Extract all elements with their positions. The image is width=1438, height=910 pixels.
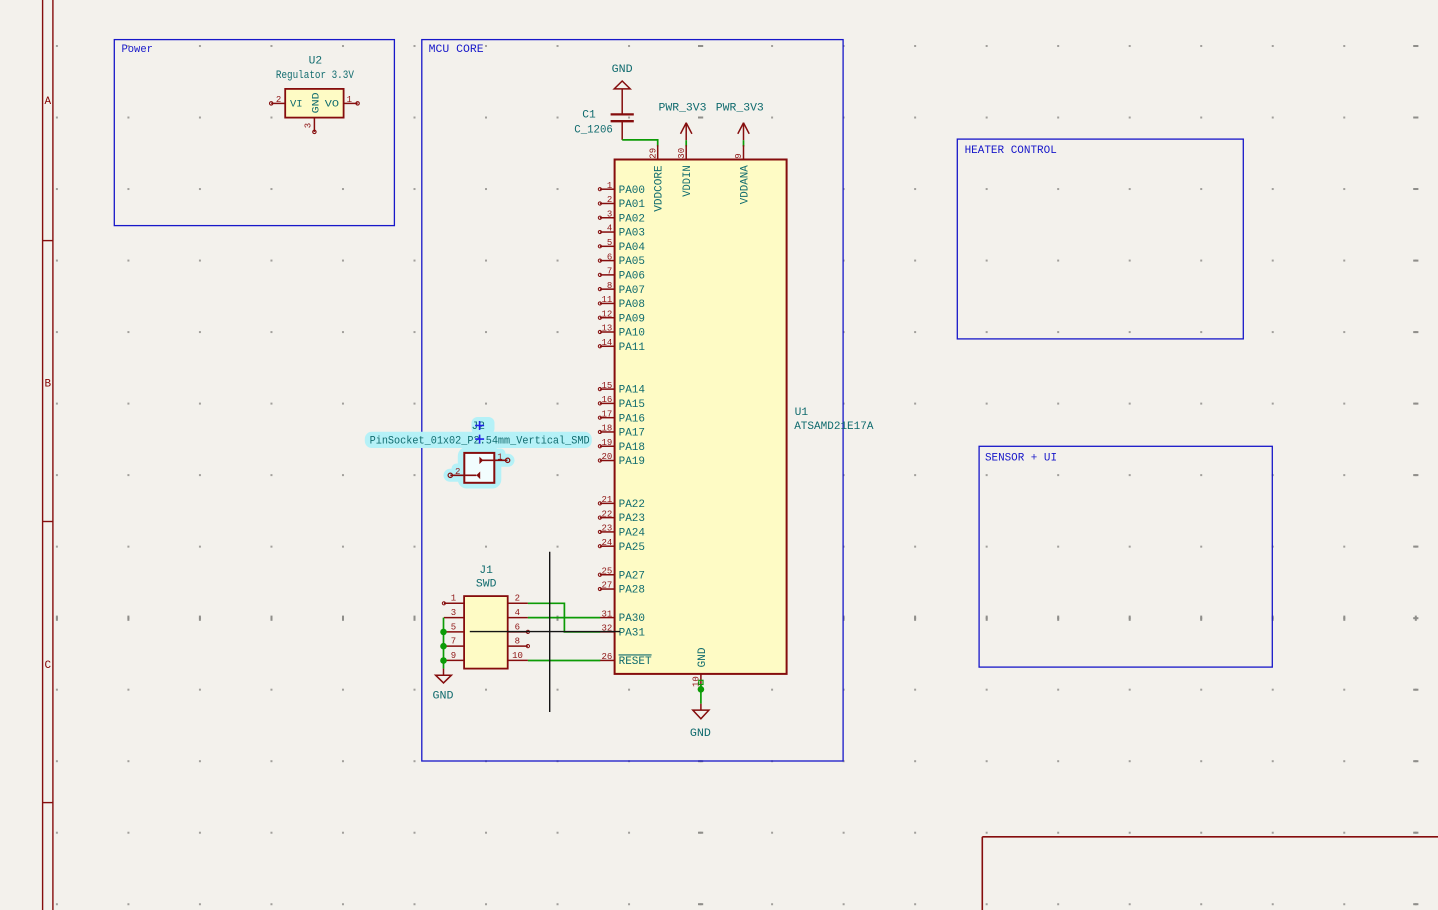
J1 pin 4	[508, 608, 528, 618]
svg-text:7: 7	[451, 637, 456, 647]
U1 pin 2 (PA01)	[598, 195, 645, 211]
power symbol GND (under J1)	[433, 669, 454, 703]
svg-text:26: 26	[601, 652, 612, 662]
svg-text:SENSOR + UI: SENSOR + UI	[985, 452, 1057, 464]
U1 pin 8 (PA07)	[598, 281, 645, 297]
svg-text:PWR_3V3: PWR_3V3	[659, 103, 707, 115]
U1 pin 19 (PA18)	[598, 438, 645, 454]
svg-text:PA09: PA09	[619, 313, 645, 325]
IC U1 body	[615, 160, 787, 674]
svg-text:13: 13	[601, 324, 612, 334]
svg-text:6: 6	[515, 622, 520, 632]
svg-text:PA27: PA27	[619, 570, 645, 582]
svg-text:PA10: PA10	[619, 328, 645, 340]
section box HEATER CONTROL	[957, 139, 1243, 339]
svg-text:15: 15	[601, 381, 612, 391]
svg-text:HEATER CONTROL: HEATER CONTROL	[965, 145, 1057, 157]
svg-text:B: B	[44, 379, 51, 391]
U1 pin 1 (PA00)	[598, 181, 645, 197]
U1 pin 24 (PA25)	[598, 538, 645, 554]
U1 pin 4 (PA03)	[598, 224, 645, 240]
svg-text:PA16: PA16	[619, 413, 645, 425]
svg-text:19: 19	[601, 438, 612, 448]
svg-text:RESET: RESET	[619, 656, 652, 668]
svg-text:29: 29	[648, 148, 658, 159]
svg-text:10: 10	[692, 676, 702, 687]
svg-text:14: 14	[601, 338, 612, 348]
svg-text:U1: U1	[795, 407, 809, 419]
wire J1 pin2 to PA31	[528, 603, 600, 632]
svg-text:31: 31	[601, 609, 612, 619]
svg-text:18: 18	[601, 424, 612, 434]
svg-text:8: 8	[607, 281, 612, 291]
svg-text:1: 1	[451, 594, 456, 604]
svg-text:7: 7	[607, 267, 612, 277]
section box Power	[114, 40, 394, 226]
svg-text:17: 17	[601, 409, 612, 419]
svg-text:MCU CORE: MCU CORE	[429, 44, 484, 56]
U1 pin 3 (PA02)	[598, 209, 645, 225]
svg-text:ATSAMD21E17A: ATSAMD21E17A	[794, 421, 874, 433]
svg-text:C: C	[44, 660, 51, 672]
svg-text:VDDIN: VDDIN	[682, 165, 694, 197]
U1 pin 13 (PA10)	[598, 324, 645, 340]
capacitor C1	[574, 109, 634, 140]
svg-text:PA04: PA04	[619, 242, 646, 254]
svg-text:2: 2	[455, 467, 460, 477]
svg-text:C_1206: C_1206	[574, 124, 613, 136]
J1 pin 9	[444, 651, 464, 661]
U1 pin 7 (PA06)	[598, 267, 645, 283]
svg-text:1: 1	[607, 181, 612, 191]
J1 pin 5	[444, 622, 464, 632]
U1 pin 16 (PA15)	[598, 395, 645, 411]
svg-text:Power: Power	[122, 44, 153, 56]
J1 pin 8	[508, 637, 530, 648]
U1 pin 11 (PA08)	[598, 295, 645, 311]
power symbol PWR_3V3 #2	[716, 103, 764, 141]
U1 pin 29 (VDDCORE)	[648, 145, 665, 212]
U1 pin 14 (PA11)	[598, 338, 645, 354]
svg-text:23: 23	[601, 524, 612, 534]
svg-text:PA01: PA01	[619, 199, 646, 211]
U1 pin 18 (PA17)	[598, 424, 645, 440]
U1 pin 32 (PA31)	[600, 624, 645, 640]
svg-text:PA28: PA28	[619, 585, 645, 597]
svg-text:SWD: SWD	[476, 579, 497, 591]
svg-text:27: 27	[601, 581, 612, 591]
svg-text:PA08: PA08	[619, 299, 645, 311]
wire C1 to VDDCORE	[622, 140, 658, 147]
svg-text:J2: J2	[472, 421, 486, 433]
svg-text:Regulator 3.3V: Regulator 3.3V	[276, 70, 354, 82]
svg-text:6: 6	[607, 252, 612, 262]
U1 pin 22 (PA23)	[598, 509, 645, 525]
wire U1 GND pin down	[700, 685, 702, 704]
svg-text:VDDANA: VDDANA	[740, 165, 752, 204]
section box MCU CORE	[422, 40, 843, 761]
svg-text:11: 11	[601, 295, 612, 305]
svg-text:GND: GND	[690, 728, 711, 740]
power symbol PWR_3V3 #1	[659, 103, 707, 141]
svg-text:PA19: PA19	[619, 456, 645, 468]
svg-text:PA07: PA07	[619, 285, 645, 297]
svg-text:20: 20	[601, 452, 612, 462]
regulator U2	[270, 55, 360, 133]
svg-text:GND: GND	[310, 92, 322, 113]
wire J1 pin10 to RESET	[528, 660, 600, 662]
svg-text:PA00: PA00	[619, 185, 645, 197]
power symbol GND (top)	[612, 64, 633, 114]
svg-text:30: 30	[677, 148, 687, 159]
U1 pin 9 (VDDANA)	[734, 145, 751, 204]
junction	[440, 643, 447, 650]
J1 pin 6	[508, 622, 530, 633]
svg-text:1: 1	[497, 452, 502, 462]
svg-text:PA23: PA23	[619, 513, 645, 525]
U1 pin 10 (GND)	[692, 647, 709, 688]
connector J1 body	[464, 596, 508, 669]
U1 pin 25 (PA27)	[598, 566, 645, 582]
U1 pin 6 (PA05)	[598, 252, 645, 268]
U1 pin 20 (PA19)	[598, 452, 645, 468]
junction	[440, 657, 447, 664]
svg-text:PA24: PA24	[619, 528, 646, 540]
svg-text:5: 5	[607, 238, 612, 248]
svg-text:PA11: PA11	[619, 342, 646, 354]
svg-text:PA05: PA05	[619, 256, 645, 268]
title block frame	[982, 836, 1438, 838]
svg-text:GND: GND	[697, 647, 709, 667]
U1 pin 26 (RESET)	[600, 652, 652, 668]
svg-text:PA02: PA02	[619, 213, 645, 225]
J1 pin 2	[508, 594, 528, 604]
wire PWR_3V3 to pin	[743, 140, 745, 146]
svg-text:PA06: PA06	[619, 270, 645, 282]
svg-text:PA25: PA25	[619, 542, 645, 554]
svg-text:21: 21	[601, 495, 612, 505]
svg-text:10: 10	[512, 651, 523, 661]
svg-text:2: 2	[276, 95, 281, 105]
svg-text:5: 5	[451, 622, 456, 632]
U1 pin 30 (VDDIN)	[677, 145, 694, 197]
svg-text:PA14: PA14	[619, 385, 646, 397]
svg-text:3: 3	[451, 608, 456, 618]
svg-text:PA03: PA03	[619, 228, 645, 240]
svg-text:3: 3	[303, 123, 313, 128]
svg-text:3: 3	[607, 209, 612, 219]
J1 pin 1	[442, 594, 464, 605]
svg-text:24: 24	[601, 538, 612, 548]
wire J1 pins 3/5/7/9 to GND	[443, 618, 445, 669]
svg-text:1: 1	[347, 95, 352, 105]
J2 anchor crosses	[475, 421, 484, 444]
U1 pin 23 (PA24)	[598, 524, 645, 540]
svg-text:9: 9	[451, 651, 456, 661]
svg-text:PA30: PA30	[619, 613, 645, 625]
U1 pin 21 (PA22)	[598, 495, 645, 511]
svg-text:PWR_3V3: PWR_3V3	[716, 103, 764, 115]
junction at U1 GND	[698, 686, 705, 693]
U1 pin 5 (PA04)	[598, 238, 645, 254]
U1 pin 27 (PA28)	[598, 581, 645, 597]
junction	[440, 629, 447, 636]
J1 pin 7	[444, 637, 464, 647]
connector J2	[370, 421, 590, 483]
J2 selection halo	[365, 417, 592, 489]
svg-text:9: 9	[734, 153, 744, 158]
dangling wire end marker	[699, 680, 703, 684]
svg-text:16: 16	[601, 395, 612, 405]
svg-text:GND: GND	[612, 64, 633, 76]
svg-text:PA17: PA17	[619, 428, 645, 440]
svg-text:VDDCORE: VDDCORE	[654, 165, 666, 212]
J1 pin 3	[444, 608, 464, 618]
svg-text:VI: VI	[290, 99, 303, 111]
svg-text:U2: U2	[309, 55, 323, 67]
wire J1 pin4 to PA30	[528, 617, 600, 619]
svg-text:4: 4	[515, 608, 520, 618]
svg-text:A: A	[44, 96, 51, 108]
svg-text:12: 12	[601, 309, 612, 319]
svg-text:PA18: PA18	[619, 442, 645, 454]
U1 pin 12 (PA09)	[598, 309, 645, 325]
svg-text:PA15: PA15	[619, 399, 645, 411]
svg-text:PA22: PA22	[619, 499, 645, 511]
svg-text:C1: C1	[582, 109, 596, 121]
power symbol GND (under U1)	[690, 704, 711, 740]
editor crosshair	[549, 552, 551, 712]
svg-text:22: 22	[601, 509, 612, 519]
svg-text:J1: J1	[479, 565, 493, 577]
svg-text:2: 2	[515, 594, 520, 604]
wire PWR_3V3 to pin	[685, 140, 687, 146]
svg-text:2: 2	[607, 195, 612, 205]
svg-text:25: 25	[601, 566, 612, 576]
U1 pin 17 (PA16)	[598, 409, 645, 425]
svg-text:8: 8	[515, 637, 520, 647]
svg-text:4: 4	[607, 224, 612, 234]
svg-text:PA31: PA31	[619, 627, 646, 639]
section box SENSOR + UI	[979, 446, 1272, 667]
J1 pin 10	[508, 651, 528, 661]
U1 pin 15 (PA14)	[598, 381, 645, 397]
U1 pin 31 (PA30)	[600, 609, 645, 625]
svg-text:GND: GND	[433, 690, 454, 702]
svg-text:VO: VO	[325, 99, 339, 111]
